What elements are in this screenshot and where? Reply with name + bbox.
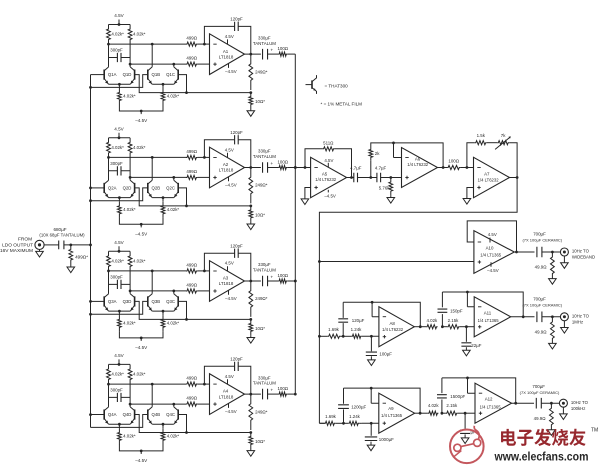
svg-text:4.02k*: 4.02k* bbox=[111, 145, 124, 150]
svg-text:+: + bbox=[270, 389, 273, 394]
wire Q1D base to feedback node bbox=[135, 75, 251, 94]
wire stage 3 output to bus bbox=[287, 280, 296, 283]
svg-text:TANTALUM: TANTALUM bbox=[253, 381, 276, 386]
svg-text:WIDEBAND: WIDEBAND bbox=[572, 255, 595, 260]
wire left collector vertical stage 3 bbox=[108, 271, 110, 294]
ground below C51 bbox=[367, 442, 375, 451]
svg-text:499Ω: 499Ω bbox=[186, 56, 197, 61]
svg-text:10Ω*: 10Ω* bbox=[255, 439, 265, 444]
transistor pair Q1B Q1C bbox=[148, 67, 178, 86]
svg-text:249Ω*: 249Ω* bbox=[255, 69, 268, 74]
svg-text:(7X 100µF CERAMIC): (7X 100µF CERAMIC) bbox=[520, 390, 560, 395]
svg-text:16V MAXIMUM: 16V MAXIMUM bbox=[0, 248, 33, 254]
svg-text:300pF: 300pF bbox=[110, 387, 123, 392]
resistor R1a 4.02k* (left load) bbox=[107, 25, 111, 45]
svg-text:499Ω: 499Ω bbox=[186, 36, 197, 41]
svg-text:A9: A9 bbox=[388, 406, 394, 411]
input bus vertical bbox=[89, 75, 92, 428]
wire pair collectors up stage 4 bbox=[152, 384, 174, 407]
svg-text:1.24k: 1.24k bbox=[351, 327, 363, 332]
svg-text:100Ω: 100Ω bbox=[277, 386, 288, 391]
svg-text:49.9Ω: 49.9Ω bbox=[534, 416, 547, 421]
svg-text:4.5V: 4.5V bbox=[114, 240, 124, 245]
node -4.5V stage 1 bbox=[119, 105, 163, 124]
wire right collector vertical stage 3 bbox=[129, 271, 131, 294]
svg-text:–4.5V: –4.5V bbox=[487, 268, 499, 273]
svg-text:4.02k*: 4.02k* bbox=[167, 434, 180, 439]
svg-text:–4.5V: –4.5V bbox=[135, 345, 148, 350]
wire right collector vertical stage 4 bbox=[129, 384, 131, 407]
node lower bus to A8 bbox=[318, 335, 321, 338]
svg-text:1.5k: 1.5k bbox=[477, 133, 486, 138]
label R2a 4.02k* bbox=[111, 145, 124, 150]
capacitor C2c 330uF TANTALUM bbox=[253, 149, 276, 173]
resistor R4e 4.02k* (left emitter) bbox=[118, 424, 136, 444]
svg-text:330µF: 330µF bbox=[258, 149, 271, 154]
svg-text:Q3B: Q3B bbox=[151, 299, 160, 304]
label R4a 4.02k* bbox=[111, 372, 124, 377]
node N40 bbox=[342, 335, 345, 338]
resistor R1e 4.02k* (left emitter) bbox=[118, 84, 136, 104]
svg-text:22µF: 22µF bbox=[471, 343, 481, 348]
node A12 plus junction bbox=[459, 412, 475, 415]
svg-text:1.69k: 1.69k bbox=[328, 327, 340, 332]
label A1 LT1818 bbox=[219, 49, 234, 60]
svg-text:4.5V: 4.5V bbox=[324, 158, 333, 163]
transistor pair Q2B Q2C bbox=[148, 180, 178, 199]
ground at A7 plus bbox=[463, 199, 471, 205]
label A4 LT1818 bbox=[219, 389, 234, 400]
resistor R23 100 ohm bbox=[447, 159, 473, 170]
svg-text:680µF: 680µF bbox=[53, 227, 66, 232]
wire plus node stage 1 bbox=[129, 63, 186, 66]
svg-text:10Ω*: 10Ω* bbox=[255, 326, 265, 331]
resistor R2h 249 ohm* bbox=[249, 168, 268, 204]
resistor R1c 499 ohm (minus input) bbox=[186, 36, 210, 47]
resistor R42 4.02k bbox=[426, 318, 438, 329]
resistor R2c 499 ohm (minus input) bbox=[186, 149, 210, 159]
svg-text:499Ω: 499Ω bbox=[186, 283, 197, 288]
wire A10 feedback loop bbox=[467, 221, 516, 252]
op-amp A2 LT1818 bbox=[210, 147, 245, 188]
resistor R1d 499 ohm (plus input) bbox=[186, 56, 210, 66]
resistor R2g 100 ohm bbox=[267, 159, 289, 169]
svg-text:330µF: 330µF bbox=[258, 375, 271, 380]
capacitor C2a 300pF bbox=[109, 161, 131, 176]
svg-text:A3: A3 bbox=[223, 276, 229, 281]
wire C54 to connector bbox=[541, 402, 559, 405]
output node A5 bbox=[347, 176, 354, 179]
output node A1 bbox=[245, 53, 261, 56]
resistor R20 511 ohm feedback A5 bbox=[305, 141, 352, 178]
node 4.5V supply stage 3 bbox=[109, 240, 131, 253]
resistor R51 1.24k bbox=[344, 414, 362, 425]
wire plus node stage 4 bbox=[129, 403, 186, 406]
wire A12 feedback bbox=[442, 377, 516, 404]
op-amp A3 LT1818 bbox=[210, 261, 245, 302]
potentiometer R25 7k bbox=[487, 133, 511, 149]
capacitor C52 1500pF bbox=[437, 378, 466, 413]
svg-text:499Ω: 499Ω bbox=[186, 169, 197, 174]
transistor pair Q4B Q4C bbox=[148, 407, 178, 426]
resistor R4a 4.02k* (left load) bbox=[107, 364, 111, 384]
svg-text:700µF: 700µF bbox=[533, 297, 546, 302]
wire Q2B base link bbox=[91, 188, 148, 201]
svg-text:A10: A10 bbox=[486, 246, 494, 251]
wire A7 plus to ground bbox=[467, 188, 474, 199]
svg-text:–4.5V: –4.5V bbox=[225, 409, 237, 414]
svg-text:120pF: 120pF bbox=[230, 356, 243, 361]
resistor R2f 4.02k* (right emitter) bbox=[161, 198, 179, 218]
supply pins A10 bbox=[487, 232, 499, 273]
ground below R54 bbox=[548, 430, 556, 436]
resistor R4i 10 ohm* bbox=[249, 433, 265, 449]
label A2 LT1818 bbox=[219, 162, 234, 173]
transistor pair Q2A Q2D bbox=[104, 180, 134, 199]
capacitor C3c 330uF TANTALUM bbox=[253, 262, 276, 286]
svg-text:4.02k*: 4.02k* bbox=[123, 94, 136, 99]
svg-text:LT1818: LT1818 bbox=[219, 394, 234, 399]
svg-text:–4.5V: –4.5V bbox=[135, 458, 148, 463]
wire Q3C base drop bbox=[178, 301, 186, 319]
op-amp A12 1/4 LT1365 bbox=[475, 383, 512, 423]
svg-text:4.5V: 4.5V bbox=[488, 232, 497, 237]
wire left collector vertical stage 2 bbox=[108, 157, 110, 180]
svg-text:Q1B: Q1B bbox=[151, 72, 160, 77]
svg-text:Q2A: Q2A bbox=[108, 186, 117, 191]
svg-text:4.5V: 4.5V bbox=[225, 147, 234, 152]
svg-text:100Ω: 100Ω bbox=[277, 46, 288, 51]
wire minus node stage 1 bbox=[107, 43, 206, 46]
svg-text:A4: A4 bbox=[223, 389, 229, 394]
resistor R3i 10 ohm* bbox=[249, 319, 265, 335]
label A8 bbox=[382, 321, 404, 332]
output node A7 bbox=[510, 176, 519, 179]
wire plus node stage 3 bbox=[129, 290, 186, 293]
svg-text:4.5V: 4.5V bbox=[225, 374, 234, 379]
wire Q3A base to bus bbox=[91, 300, 105, 302]
svg-text:330µF: 330µF bbox=[258, 35, 271, 40]
wire between caps bbox=[358, 176, 377, 179]
svg-text:1/4 LT6232: 1/4 LT6232 bbox=[478, 178, 500, 183]
svg-text:4.7µF: 4.7µF bbox=[375, 165, 387, 170]
output node A10 bbox=[514, 251, 534, 254]
output connector J11 bbox=[560, 313, 568, 321]
svg-text:249Ω*: 249Ω* bbox=[255, 296, 268, 301]
node N50 bbox=[342, 422, 345, 425]
resistor R21 2k bbox=[369, 147, 380, 178]
svg-text:249Ω*: 249Ω* bbox=[255, 183, 268, 188]
capacitor C4b 120pF feedback bbox=[204, 356, 250, 394]
svg-text:700µF: 700µF bbox=[532, 384, 545, 389]
legend text * = 1% METAL FILM bbox=[321, 102, 363, 107]
wire stage 1 output to bus corner bbox=[287, 53, 295, 55]
supply pins A1 bbox=[225, 34, 237, 74]
svg-text:1.24k: 1.24k bbox=[349, 414, 361, 419]
ground below R4i bbox=[247, 448, 255, 456]
svg-text:A1: A1 bbox=[223, 49, 229, 54]
label 10Hz TO WIDEBAND bbox=[572, 249, 595, 260]
label R2b 4.02k* bbox=[133, 145, 146, 150]
svg-text:4.02k*: 4.02k* bbox=[123, 321, 136, 326]
svg-text:4.7µF: 4.7µF bbox=[350, 165, 362, 170]
svg-text:10Ω*: 10Ω* bbox=[255, 212, 265, 217]
op-amp A5 1/4 LT6232 bbox=[311, 157, 347, 197]
wire minus node stage 3 bbox=[107, 270, 206, 273]
node A9 plus junction bbox=[362, 422, 379, 425]
svg-text:+: + bbox=[270, 49, 273, 54]
resistor R52 4.02k bbox=[428, 403, 440, 415]
ground below R1i bbox=[247, 109, 255, 117]
wire Q2C base drop bbox=[178, 188, 186, 206]
svg-text:(7X 100µF CERAMIC): (7X 100µF CERAMIC) bbox=[522, 302, 562, 307]
label 680uF (10X 68uF TANTALUM) bbox=[39, 227, 85, 237]
svg-text:330µF: 330µF bbox=[258, 262, 271, 267]
transistor pair Q4A Q4D bbox=[104, 407, 134, 426]
svg-text:www.elecfans.com: www.elecfans.com bbox=[494, 449, 589, 463]
resistor R2a 4.02k* (left load) bbox=[107, 138, 111, 158]
svg-text:2k: 2k bbox=[375, 151, 380, 156]
svg-text:TM: TM bbox=[591, 428, 598, 434]
resistor R22 5.76k bbox=[379, 178, 393, 196]
wire right collector vertical stage 2 bbox=[129, 157, 131, 180]
capacitor C3a 300pF bbox=[109, 274, 131, 289]
svg-text:Q4B: Q4B bbox=[151, 412, 160, 417]
output connector J10 bbox=[560, 248, 568, 256]
resistor R54 49.9 ohm bbox=[534, 403, 554, 430]
output node A2 bbox=[245, 166, 261, 169]
resistor R3h 249 ohm* bbox=[249, 281, 268, 317]
capacitor C3b 120pF feedback bbox=[204, 243, 250, 281]
svg-text:–4.5V: –4.5V bbox=[135, 232, 148, 237]
label R3a 4.02k* bbox=[111, 258, 124, 263]
svg-text:–4.5V: –4.5V bbox=[225, 296, 237, 301]
wire bus to A5 minus bbox=[294, 166, 311, 169]
capacitor C41 100uF bbox=[366, 336, 392, 356]
svg-text:(7X 100µF CERAMIC): (7X 100µF CERAMIC) bbox=[522, 238, 562, 243]
svg-text:4.02k*: 4.02k* bbox=[133, 372, 146, 377]
resistor R4h 249 ohm* bbox=[249, 394, 268, 430]
ground below J1 bbox=[36, 249, 44, 257]
svg-text:4.02k*: 4.02k* bbox=[111, 258, 124, 263]
wire pair collectors up stage 1 bbox=[152, 44, 174, 67]
svg-text:Q3D: Q3D bbox=[123, 299, 132, 304]
svg-text:4.02k*: 4.02k* bbox=[111, 32, 124, 37]
svg-text:499Ω: 499Ω bbox=[186, 263, 197, 268]
svg-text:* = 1% METAL FILM: * = 1% METAL FILM bbox=[321, 102, 363, 107]
svg-text:4.02k*: 4.02k* bbox=[167, 94, 180, 99]
capacitor C43 22uF bbox=[461, 327, 481, 348]
op-amp A8 1/4 LT6232 bbox=[379, 307, 414, 347]
wire caps to A6 plus bbox=[381, 176, 402, 179]
node -4.5V stage 2 bbox=[119, 218, 163, 237]
op-amp A6 1/4 LT6232 bbox=[402, 148, 438, 188]
resistor R1g 100 ohm bbox=[267, 46, 289, 56]
wire stage 2 output to bus bbox=[287, 166, 296, 169]
svg-text:Q4C: Q4C bbox=[166, 412, 175, 417]
node A8 plus junction bbox=[362, 335, 379, 338]
node N42 bbox=[441, 325, 444, 328]
svg-text:Q3C: Q3C bbox=[166, 299, 175, 304]
capacitor C53 0.15uF bbox=[460, 413, 476, 435]
svg-text:4.02k: 4.02k bbox=[428, 403, 440, 408]
resistor R24 1.5k feedback A7 bbox=[467, 133, 487, 167]
label A9 bbox=[381, 406, 403, 418]
svg-text:499Ω: 499Ω bbox=[186, 376, 197, 381]
svg-text:Q2D: Q2D bbox=[123, 186, 132, 191]
transistor pair Q3A Q3D bbox=[104, 294, 134, 313]
label R4b 4.02k* bbox=[133, 372, 146, 377]
resistor R2i 10 ohm* bbox=[249, 206, 265, 222]
wire C_in to input bus bbox=[64, 244, 91, 247]
resistor R4g 100 ohm bbox=[267, 386, 289, 396]
op-amp A10 1/4 LT1365 bbox=[474, 231, 514, 274]
legend text = THAT300 bbox=[325, 83, 349, 88]
supply pins A4 bbox=[225, 374, 237, 414]
svg-text:–4.5V: –4.5V bbox=[324, 193, 336, 198]
svg-text:511Ω: 511Ω bbox=[323, 141, 334, 146]
watermark elecfans logo bbox=[450, 426, 598, 464]
resistor R4c 499 ohm (minus input) bbox=[186, 376, 210, 387]
svg-text:A6: A6 bbox=[415, 156, 421, 161]
capacitor C54 700uF bbox=[520, 384, 560, 409]
wire Q4C base drop bbox=[178, 415, 186, 433]
capacitor C2b 120pF feedback bbox=[204, 130, 250, 168]
capacitor C20 4.7uF bbox=[350, 165, 362, 182]
node A11 plus junction bbox=[460, 325, 475, 328]
resistor R2b 4.02k* (right load) bbox=[128, 138, 132, 158]
svg-text:150pF: 150pF bbox=[450, 308, 463, 313]
svg-text:700µF: 700µF bbox=[533, 232, 546, 237]
svg-text:4.5V: 4.5V bbox=[114, 126, 124, 131]
label A12 bbox=[480, 397, 502, 410]
node lower bus to A10 bbox=[318, 260, 321, 263]
feedback junction stage 3 bbox=[249, 318, 252, 321]
feedback junction stage 4 bbox=[249, 431, 252, 434]
wire right collector vertical stage 1 bbox=[129, 44, 131, 67]
label A11 bbox=[478, 311, 500, 323]
svg-text:A12: A12 bbox=[485, 397, 493, 402]
svg-text:A2: A2 bbox=[223, 162, 229, 167]
ground below C53 bbox=[461, 434, 469, 443]
wire pair collectors up stage 3 bbox=[152, 271, 174, 294]
svg-text:2.15k: 2.15k bbox=[446, 403, 458, 408]
svg-text:LT1818: LT1818 bbox=[219, 54, 234, 59]
ground below R44 bbox=[549, 343, 557, 349]
resistor R4d 499 ohm (plus input) bbox=[186, 396, 210, 407]
wire left collector vertical stage 1 bbox=[108, 44, 110, 67]
svg-text:+: + bbox=[270, 162, 273, 167]
svg-text:(10X 68µF TANTALUM): (10X 68µF TANTALUM) bbox=[39, 233, 85, 238]
svg-text:120µF: 120µF bbox=[352, 318, 365, 323]
node 4.5V supply stage 2 bbox=[109, 126, 131, 139]
svg-text:499Ω*: 499Ω* bbox=[75, 255, 88, 260]
capacitor C42 150pF bbox=[438, 292, 463, 327]
svg-text:4.5V: 4.5V bbox=[225, 34, 234, 39]
wire A9 feedback bbox=[344, 387, 421, 414]
svg-text:49.9Ω: 49.9Ω bbox=[535, 265, 548, 270]
wire stage 4 output to bus bbox=[287, 393, 296, 396]
label A3 LT1818 bbox=[219, 276, 234, 287]
resistor R4b 4.02k* (right load) bbox=[128, 364, 132, 384]
input connector J1 bbox=[35, 240, 44, 249]
svg-text:Q1A: Q1A bbox=[108, 72, 117, 77]
svg-text:Q2C: Q2C bbox=[166, 186, 175, 191]
svg-text:120pF: 120pF bbox=[230, 130, 243, 135]
svg-text:A11: A11 bbox=[484, 311, 492, 316]
svg-text:A5: A5 bbox=[322, 171, 328, 176]
wire Q3B base link bbox=[91, 301, 148, 314]
wire Q4D base to feedback node bbox=[135, 415, 251, 434]
svg-text:4.5V: 4.5V bbox=[114, 13, 124, 18]
wire minus node stage 2 bbox=[107, 156, 206, 159]
wire A7 output to lower bus bbox=[319, 178, 517, 424]
svg-text:A8: A8 bbox=[390, 321, 396, 326]
svg-text:4.02k: 4.02k bbox=[427, 318, 439, 323]
wire C30 to connector bbox=[542, 251, 561, 254]
label R1b 4.02k* bbox=[133, 32, 146, 37]
input label FROM LDO OUTPUT 16V MAXIMUM bbox=[0, 237, 33, 254]
output node A8 bbox=[414, 325, 426, 328]
svg-text:49.9Ω: 49.9Ω bbox=[535, 330, 548, 335]
svg-text:10Hz TO: 10Hz TO bbox=[572, 314, 590, 319]
svg-text:100Ω: 100Ω bbox=[277, 159, 288, 164]
transistor pair Q1A Q1D bbox=[104, 67, 134, 86]
resistor R3a 4.02k* (left load) bbox=[107, 251, 111, 271]
node -4.5V stage 3 bbox=[119, 331, 163, 350]
transistor pair Q3B Q3C bbox=[148, 294, 178, 313]
svg-text:499Ω: 499Ω bbox=[186, 396, 197, 401]
svg-text:300pF: 300pF bbox=[110, 161, 123, 166]
ground below R2i bbox=[247, 222, 255, 230]
label A7 bbox=[478, 172, 500, 183]
svg-text:–4.5V: –4.5V bbox=[225, 182, 237, 187]
wire plus node stage 2 bbox=[129, 176, 186, 179]
wire Q1B base link bbox=[91, 75, 148, 88]
resistor R3g 100 ohm bbox=[267, 273, 289, 283]
op-amp A7 1/4 LT6232 bbox=[474, 157, 510, 197]
capacitor C44 700uF bbox=[522, 297, 562, 323]
output node A6 bbox=[438, 166, 448, 169]
svg-text:1000µF: 1000µF bbox=[379, 437, 394, 442]
label A6 bbox=[407, 156, 429, 166]
resistor R50 1.69k bbox=[319, 414, 343, 425]
svg-text:A7: A7 bbox=[484, 172, 490, 177]
label A10 bbox=[480, 246, 502, 258]
feedback junction stage 1 bbox=[249, 91, 252, 94]
resistor R4f 4.02k* (right emitter) bbox=[161, 424, 179, 444]
svg-text:120pF: 120pF bbox=[230, 243, 243, 248]
svg-text:FROM: FROM bbox=[18, 237, 32, 243]
node 4.5V supply stage 1 bbox=[109, 13, 131, 26]
ground below R_in bbox=[67, 265, 75, 273]
legend transistor symbol THAT300 bbox=[306, 75, 317, 94]
label R1a 4.02k* bbox=[111, 32, 124, 37]
wire Q2A base to bus bbox=[91, 187, 105, 189]
svg-text:4.02k*: 4.02k* bbox=[133, 258, 146, 263]
svg-text:1/4 LT1365: 1/4 LT1365 bbox=[478, 318, 500, 323]
resistor R3f 4.02k* (right emitter) bbox=[161, 311, 179, 331]
wire Q1A base to bus bbox=[91, 74, 105, 76]
resistor R30 49.9 ohm bbox=[535, 252, 555, 279]
op-amp A4 LT1818 bbox=[210, 374, 245, 415]
wire A5 plus to ground bbox=[305, 188, 311, 199]
ground below C41 bbox=[368, 356, 376, 365]
output node A12 bbox=[512, 402, 535, 405]
wire Q4A base to bus bbox=[91, 414, 105, 416]
wire pot to A7 output bbox=[509, 143, 517, 178]
label A5 bbox=[315, 171, 337, 182]
